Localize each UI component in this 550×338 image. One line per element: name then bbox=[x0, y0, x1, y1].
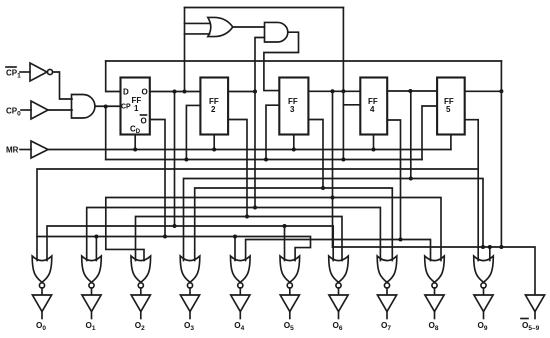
wire FF3 CD to MR bus bbox=[293, 135, 295, 150]
wire Q4bar from FF4 Obar bbox=[387, 120, 400, 240]
wire Q3 dropper bbox=[332, 91, 334, 247]
svg-text:2: 2 bbox=[211, 105, 216, 114]
node Q5bar lands on L9 bbox=[499, 245, 503, 249]
wire output stem O3 bbox=[189, 312, 191, 319]
node Q5bar feedback junction bbox=[499, 89, 503, 93]
NOR gate g7 output O6 bbox=[329, 256, 349, 282]
wire O3 line FF3 to FF4 D bbox=[308, 90, 360, 92]
node Q4 lands on L2 bbox=[409, 177, 413, 181]
wire MR bus bbox=[48, 149, 451, 151]
node AND lower input junction on O2 line bbox=[253, 90, 257, 94]
wire g3 bubble to buffer bbox=[140, 288, 142, 295]
NOR gate g6 output O5 bbox=[280, 256, 300, 282]
wire g9 bubble to buffer bbox=[434, 288, 436, 295]
label MR bbox=[6, 146, 19, 155]
wire L3 bbox=[195, 188, 393, 261]
wire Q1 dropper bbox=[174, 92, 176, 227]
wire g6 bubble to buffer bbox=[289, 288, 291, 295]
wire Q3bar from FF3 Obar bbox=[308, 120, 323, 189]
buffer under g1 bbox=[32, 295, 51, 312]
node FF4 CD junction bbox=[372, 148, 376, 152]
wire FF5 CP riser bbox=[422, 106, 437, 160]
node g10 right junction bbox=[488, 245, 492, 249]
wire output stem O6 bbox=[338, 312, 340, 319]
wire L6 bbox=[136, 217, 343, 261]
wire g4 bubble to buffer bbox=[189, 288, 191, 295]
wire g7 bubble to buffer bbox=[338, 288, 340, 295]
label O9 bbox=[478, 321, 488, 332]
NOR gate g10 output O9 bbox=[474, 256, 494, 282]
wire MR input bbox=[20, 149, 31, 151]
buffer under g9 bbox=[425, 295, 444, 312]
wire L2 bbox=[184, 179, 484, 261]
node Q2 lands on L5 bbox=[253, 206, 257, 210]
node O3 dropper junction bbox=[331, 89, 335, 93]
node Q3 tee on L4 bbox=[331, 196, 335, 200]
label O5 bbox=[284, 321, 294, 332]
node g5 left junction bbox=[233, 235, 237, 239]
wire output stem O1 bbox=[91, 312, 93, 319]
flip-flop FF5 bbox=[437, 78, 465, 135]
bubble of g5 bbox=[238, 283, 243, 288]
node FF1 CD junction bbox=[133, 148, 137, 152]
and-gate U3 bbox=[265, 22, 288, 42]
wire FF2 CD to MR bus bbox=[213, 135, 215, 150]
wire Q5bar dropper bbox=[500, 91, 502, 247]
wire FF2 CP riser bbox=[186, 105, 200, 159]
wire Q2 dropper bbox=[254, 92, 256, 208]
node O1 dropper junction bbox=[173, 90, 177, 94]
or-gate U2 bbox=[208, 17, 233, 36]
flip-flop FF2 bbox=[200, 78, 228, 135]
wire top loop left vertical to OR inputs bbox=[184, 8, 186, 92]
label O3 bbox=[184, 321, 194, 332]
wire O4 line FF4 to FF5 D bbox=[387, 90, 437, 92]
wire CP0 input bbox=[21, 109, 31, 111]
wire L1 bbox=[37, 169, 478, 261]
wire output stem O7 bbox=[386, 312, 388, 319]
bubble of g4 bbox=[187, 283, 192, 288]
label O5-9 with overline bbox=[521, 318, 528, 320]
node Q2bar lands on L6 bbox=[245, 215, 249, 219]
flip-flop FF3 bbox=[279, 78, 308, 135]
node FF3 CD junction bbox=[292, 148, 296, 152]
buffer under g6 bbox=[280, 295, 299, 312]
svg-text:4: 4 bbox=[370, 105, 375, 114]
wire top loop horizontal bbox=[185, 7, 344, 9]
wire feedback left drop to FF1 D bbox=[106, 61, 121, 92]
node Q1 lands on L7 bbox=[173, 224, 177, 228]
node L2 lands on L9 bbox=[481, 245, 485, 249]
buffer under g5 bbox=[231, 295, 250, 312]
wire L9 bbox=[333, 247, 536, 295]
flip-flop FF4 bbox=[360, 78, 387, 135]
wire g2 bubble to buffer bbox=[91, 288, 93, 295]
wire AND output to FF3 D bbox=[264, 32, 299, 90]
wire output stem O5-9 bbox=[534, 312, 536, 319]
wire g8 bubble to buffer bbox=[386, 288, 388, 295]
wire Q5 from FF5 bottom out bbox=[465, 120, 479, 261]
bubble of g7 bbox=[336, 283, 341, 288]
wire FF5 CD to MR bus bbox=[450, 135, 452, 150]
buffer under g2 bbox=[82, 295, 101, 312]
NOR gate g8 output O7 bbox=[377, 256, 397, 282]
inverter on CP1 bbox=[30, 63, 47, 81]
label CP1bar bbox=[6, 69, 21, 80]
label O0 bbox=[36, 321, 46, 332]
wire g10 right drop from L9 bbox=[489, 247, 491, 261]
wire FF4 CP riser bbox=[343, 105, 360, 160]
wire CP1 input bbox=[20, 71, 30, 73]
wire L7 bbox=[47, 226, 333, 261]
wire O2 line FF2 to AND riser bbox=[228, 91, 255, 93]
svg-text:MR: MR bbox=[6, 146, 19, 155]
wire AND lower input riser from O2 bbox=[255, 38, 265, 92]
label O6 bbox=[333, 321, 343, 332]
wire output stem O4 bbox=[239, 312, 241, 319]
wire g10 bubble to buffer bbox=[483, 288, 485, 295]
label O4 bbox=[234, 321, 244, 332]
overline of FF1 Obar label bbox=[141, 114, 147, 116]
label O2 bbox=[135, 321, 145, 332]
wire output stem O5 bbox=[289, 312, 291, 319]
NOR gate g4 output O3 bbox=[180, 256, 200, 282]
label CP0 bbox=[6, 107, 21, 118]
wire output stem O8 bbox=[434, 312, 436, 319]
wire output stem O2 bbox=[140, 312, 142, 319]
wire output stem O9 bbox=[483, 312, 485, 319]
label O8 bbox=[429, 321, 439, 332]
node Q4bar lands on L8b bbox=[399, 238, 403, 242]
wire FF4 CD to MR bus bbox=[373, 135, 375, 150]
node FF3 CP junction on clock bus bbox=[264, 158, 268, 162]
wire L8b bbox=[246, 240, 431, 261]
bubble of g2 bbox=[89, 283, 94, 288]
label O7 bbox=[381, 321, 391, 332]
wire OR upper input stub bbox=[185, 22, 210, 24]
node g6 left drop junction bbox=[283, 224, 287, 228]
wire CP1 to AND gate bbox=[53, 72, 72, 99]
label O1 bbox=[86, 321, 96, 332]
buffer under g3 bbox=[131, 295, 150, 312]
wire g2 right drop from L8a bbox=[95, 237, 97, 261]
node FF4 CP junction on clock bus bbox=[341, 158, 345, 162]
buffer on CP0 bbox=[31, 101, 48, 119]
svg-text:D: D bbox=[123, 88, 129, 97]
node OR lower input junction on O1 line bbox=[183, 90, 187, 94]
bubble of g8 bbox=[384, 283, 389, 288]
wire Q2bar from FF2 Obar bbox=[228, 120, 247, 217]
svg-text:CP: CP bbox=[121, 104, 131, 111]
node g2 right junction bbox=[94, 235, 98, 239]
NOR gate g9 output O8 bbox=[425, 256, 445, 282]
wire OR lower input stub bbox=[185, 33, 210, 35]
wire output stem O0 bbox=[41, 312, 43, 319]
wire O5bar line FF5 top out bbox=[465, 90, 502, 92]
buffer under g7 bbox=[329, 295, 348, 312]
wire feedback right riser bbox=[500, 61, 502, 91]
node top loop junction on O3 line bbox=[341, 89, 345, 93]
NOR gate g2 output O1 bbox=[82, 256, 102, 282]
bubble of g6 bbox=[287, 283, 292, 288]
flip-flop FF1 bbox=[121, 78, 150, 135]
wire Q4 dropper bbox=[410, 91, 412, 179]
wire clock AND output to FF1 CP bbox=[95, 105, 121, 107]
wire column continuation to FF4 CP bbox=[342, 91, 344, 105]
AND gate U1 clock bbox=[72, 95, 95, 119]
wire L8a bbox=[37, 237, 311, 261]
wire g5 left drop from L8a bbox=[234, 237, 236, 261]
node clock junction bbox=[104, 105, 108, 109]
wire g5 bubble to buffer bbox=[239, 288, 241, 295]
wire g6 left drop from L7 bbox=[284, 226, 286, 261]
svg-text:1: 1 bbox=[134, 104, 139, 113]
svg-text:O: O bbox=[142, 88, 148, 97]
wire Q1bar from FF1 Obar bbox=[150, 120, 165, 237]
bubble of g1 bbox=[39, 283, 44, 288]
node FF2 CD junction bbox=[212, 148, 216, 152]
wire L5 bbox=[87, 208, 381, 261]
svg-text:3: 3 bbox=[290, 105, 295, 114]
svg-text:O: O bbox=[141, 117, 147, 126]
overline of CP1 bbox=[6, 66, 16, 68]
bubble of g3 bbox=[138, 283, 143, 288]
bubble of g10 bbox=[481, 283, 486, 288]
wire g1 bubble to buffer bbox=[41, 288, 43, 295]
wire O1 line FF1 to FF2 D bbox=[150, 91, 201, 93]
wire top loop right vertical from O3 bbox=[342, 8, 344, 92]
wire FF1 CD to MR bus bbox=[134, 135, 136, 150]
buffer under g4 bbox=[180, 295, 199, 312]
wire feedback line Q5bar to FF1 D bbox=[106, 60, 502, 62]
node Q3bar lands on L3 bbox=[321, 186, 325, 190]
node FF2 CP junction on clock bus bbox=[184, 158, 188, 162]
wire clock dropper bbox=[105, 107, 107, 160]
svg-text:5: 5 bbox=[446, 105, 451, 114]
inverter bubble bbox=[47, 69, 52, 74]
node O4 dropper junction bbox=[408, 89, 412, 93]
NOR gate g5 output O4 bbox=[231, 256, 251, 282]
node Q1bar lands on L8a bbox=[163, 235, 167, 239]
NOR gate g1 output O0 bbox=[32, 256, 52, 282]
buffer on MR bbox=[31, 141, 48, 158]
wire OR output to AND bbox=[233, 26, 265, 28]
bubble of g9 bbox=[432, 283, 437, 288]
NOR gate g3 output O2 bbox=[131, 256, 151, 282]
buffer under g8 bbox=[377, 295, 396, 312]
buffer O5-9 bbox=[525, 295, 544, 312]
buffer under g10 bbox=[474, 295, 493, 312]
wire CP0 to AND gate bbox=[48, 109, 72, 111]
wire FF3 CP riser bbox=[266, 105, 279, 159]
wire clock bus bbox=[106, 159, 422, 161]
wire L4 with left staircase bbox=[106, 198, 441, 261]
